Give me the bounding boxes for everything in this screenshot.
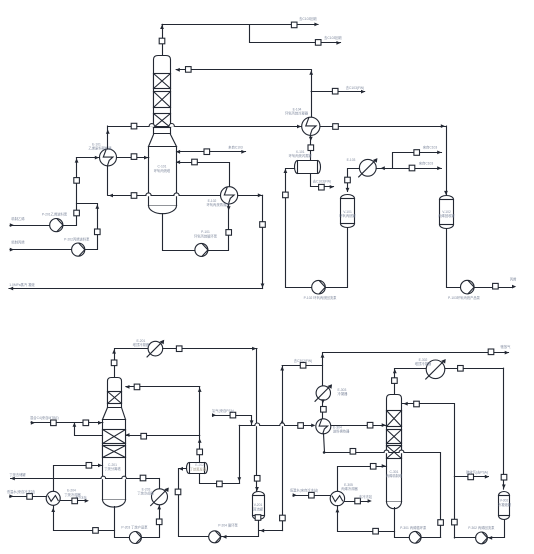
- wire purge vertical: [282, 366, 284, 531]
- wire C-201 bottoms to P-203: [115, 507, 130, 538]
- wire E-204 water return: [60, 500, 85, 502]
- wire V-102 bottoms to P-103: [447, 229, 461, 288]
- svg-text:精制丙烯: 精制丙烯: [11, 240, 25, 245]
- svg-text:低温水(来自冷冻站): 低温水(来自冷冻站): [290, 487, 319, 492]
- wire 低温水 feed to E-305: [293, 495, 330, 497]
- wire E-201 outlet to V-201: [163, 348, 257, 350]
- wire C103 upper line: [393, 153, 442, 169]
- wire P-202 discharge: [77, 204, 98, 250]
- wire P-203 discharge to E-203: [142, 505, 160, 538]
- wire E-302 outlet to V-302: [503, 368, 505, 489]
- vessel V-101: [341, 195, 355, 228]
- svg-text:丁烷蒸发器: 丁烷蒸发器: [190, 466, 207, 471]
- wire condensate header to P-301 riser: [325, 453, 441, 538]
- svg-text:弛放气(去PSA): 弛放气(去PSA): [466, 470, 488, 475]
- pump P-101: [195, 243, 208, 256]
- wire E-103 inlet from C103: [376, 168, 441, 170]
- wire P-201 discharge: [63, 158, 77, 226]
- wire condensate vertical: [262, 195, 264, 288]
- svg-text:P-301 丙烯循环泵: P-301 丙烯循环泵: [400, 525, 427, 530]
- svg-text:回流罐: 回流罐: [253, 506, 264, 511]
- svg-text:混合C4(来自MTBE): 混合C4(来自MTBE): [30, 415, 59, 420]
- line-crossing hops: [149, 124, 154, 127]
- wire long feed line to E-304: [239, 425, 312, 427]
- wire E-103 outlet to V-101: [348, 169, 360, 192]
- pump P-203: [129, 532, 141, 544]
- svg-text:P-204 循环泵: P-204 循环泵: [218, 522, 238, 527]
- pump P-201 feed 精制乙烯: [10, 225, 50, 227]
- svg-text:乙烯原料预热器: 乙烯原料预热器: [88, 145, 112, 150]
- pump P-201: [50, 219, 63, 232]
- svg-text:来自C103: 来自C103: [228, 144, 243, 149]
- svg-text:精制乙烯: 精制乙烯: [11, 216, 25, 221]
- wire vapor into C-201 mid: [126, 435, 200, 437]
- svg-text:丁烷分离塔: 丁烷分离塔: [104, 466, 121, 471]
- wire column bottoms to P-101: [163, 214, 195, 251]
- wire branch to C103 (lower): [250, 25, 341, 43]
- svg-text:进料换热器: 进料换热器: [333, 429, 350, 434]
- svg-text:去C103(FW): 去C103(FW): [313, 179, 332, 184]
- wire E-104 top vertical: [311, 70, 313, 117]
- wire E-305 water return: [345, 501, 368, 503]
- svg-text:E-102: E-102: [208, 199, 217, 203]
- pump P-302 suction from V-302: [488, 519, 505, 538]
- drum E-202: [187, 463, 208, 474]
- svg-text:来自C103: 来自C103: [423, 145, 438, 150]
- wire reflux drum vertical: [199, 387, 201, 463]
- svg-text:P-201乙烯进料泵: P-201乙烯进料泵: [42, 211, 68, 216]
- svg-text:低温水(来自冷冻站): 低温水(来自冷冻站): [7, 489, 36, 494]
- svg-text:E-103: E-103: [347, 158, 356, 162]
- svg-text:P-102 环氧丙烷回流泵: P-102 环氧丙烷回流泵: [304, 295, 337, 300]
- wire C-301 overhead to E-302: [395, 369, 504, 395]
- cooler E-103: [359, 159, 376, 176]
- svg-text:丁烷冷却器: 丁烷冷却器: [137, 490, 154, 495]
- wire E-204 bottom loop: [54, 506, 115, 531]
- wire 丁烷 product line: [11, 478, 160, 480]
- svg-text:环氧丙烷循环泵: 环氧丙烷循环泵: [194, 234, 218, 239]
- wire 氢气 feed: [213, 416, 252, 426]
- wire 驰放气 line: [323, 353, 509, 386]
- wire purge gas to PSA: [454, 476, 488, 478]
- cooler E-203: [152, 489, 168, 505]
- pump P-301: [409, 531, 421, 543]
- svg-text:去C103回收: 去C103回收: [299, 16, 317, 21]
- svg-text:去C103回收: 去C103回收: [324, 35, 342, 40]
- pump P-202 feed 精制丙烯: [10, 249, 72, 251]
- wire C-201 feed 混合C4: [31, 422, 103, 424]
- wire E-102 right to condensate header: [238, 195, 263, 197]
- pump P-302: [476, 532, 488, 544]
- wire P-103 product out: [474, 287, 511, 289]
- wire reflux riser: [454, 404, 456, 538]
- svg-text:去冷冻站: 去冷冻站: [359, 494, 373, 499]
- pump P-204: [209, 531, 221, 543]
- condenser E-302: [426, 360, 445, 379]
- svg-text:环氧丙烷罐: 环氧丙烷罐: [339, 213, 356, 218]
- heat exchanger E-102: [221, 187, 238, 204]
- vessel V-102: [440, 196, 454, 229]
- svg-text:环氧丙烷塔: 环氧丙烷塔: [154, 168, 171, 173]
- svg-text:驰放气: 驰放气: [501, 344, 512, 349]
- drum X-101: [295, 161, 321, 174]
- column C-301: [387, 395, 402, 502]
- wire C-201 overhead: [115, 349, 149, 378]
- wire 低温水 feed to E-204: [10, 496, 47, 498]
- svg-text:丁烷去储罐: 丁烷去储罐: [9, 472, 26, 477]
- wire 1.0MPa steam condensate header: [9, 288, 263, 290]
- wire E-305 return to C-301: [338, 467, 387, 492]
- wire E-104 bottom to drum X-101: [310, 136, 312, 161]
- wire drum E-202 left outlet: [179, 469, 209, 537]
- wire C-101 overhead vertical: [162, 24, 164, 56]
- wire reflux into C-201 top: [126, 386, 200, 388]
- svg-text:氢气(来自PSA): 氢气(来自PSA): [212, 408, 234, 413]
- wire P-204 to V-201 bottoms: [221, 520, 259, 537]
- wire E-101 bottom loop from E-102: [107, 166, 109, 195]
- svg-text:环氧丙烷再沸器: 环氧丙烷再沸器: [206, 202, 230, 207]
- wire E-305 bottom loop: [338, 506, 395, 532]
- svg-text:塔顶冷凝器: 塔顶冷凝器: [133, 342, 150, 347]
- wire P-302 discharge to reflux riser: [454, 537, 475, 539]
- column C-101: [154, 56, 171, 134]
- heat exchanger E-104: [302, 117, 320, 135]
- svg-text:来自C103: 来自C103: [419, 160, 434, 165]
- svg-text:环氧丙烷闪蒸罐: 环氧丙烷闪蒸罐: [289, 153, 313, 158]
- wire E-101 feed from pumps: [77, 157, 100, 159]
- wire P-102 suction from V-101: [326, 228, 348, 288]
- svg-text:丙烯: 丙烯: [510, 277, 517, 282]
- svg-text:冷凝器: 冷凝器: [338, 391, 349, 396]
- svg-text:1.0MPa蒸汽 凝液: 1.0MPa蒸汽 凝液: [9, 282, 35, 287]
- wire E-101 outlet to column: [117, 157, 149, 159]
- svg-text:丙烯冷却器: 丙烯冷却器: [341, 486, 358, 491]
- pump P-202: [72, 243, 85, 256]
- wire C-301 bottoms to P-301: [395, 508, 410, 538]
- wire V-102 inlet vertical: [446, 126, 448, 194]
- svg-text:P-203 丁烷产品泵: P-203 丁烷产品泵: [121, 525, 148, 530]
- column C-201: [108, 378, 122, 408]
- heat exchanger E-101: [100, 149, 117, 166]
- svg-text:环氧丙烷冷凝器: 环氧丙烷冷凝器: [285, 111, 309, 116]
- wire 来自C103 into column: [177, 151, 246, 153]
- wire reboiler return E-102 to column: [177, 163, 230, 187]
- cooler E-305: [330, 491, 344, 505]
- wire drum E-202 bottom line: [200, 474, 240, 484]
- wire C-101 overhead to C103 (upper): [162, 24, 318, 26]
- svg-text:丙烯回收罐: 丙烯回收罐: [438, 213, 455, 218]
- svg-text:P-302 丙烯回流泵: P-302 丙烯回流泵: [468, 525, 495, 530]
- wire E-304 outlet to C-301: [331, 425, 387, 427]
- wire E-303 to E-304: [322, 400, 324, 419]
- svg-text:冷凝液罐: 冷凝液罐: [498, 502, 512, 507]
- svg-text:去C302(FW): 去C302(FW): [294, 358, 313, 363]
- wire E-101 top vertical: [107, 126, 109, 149]
- wire purge to C103 (FW): [311, 91, 364, 93]
- wire riser to feed line: [239, 425, 241, 483]
- wire E-204 return to column: [54, 466, 103, 492]
- wire E-203 top vertical: [159, 479, 161, 490]
- wire purge top to E-303 chain: [282, 365, 322, 367]
- svg-text:P-103环氧丙烷产品泵: P-103环氧丙烷产品泵: [448, 295, 481, 300]
- wire E-304 bottom to condensate header: [324, 434, 325, 453]
- wire purge merge into V-201 bottoms: [260, 530, 283, 532]
- wire feed from E-104 area into column top section: [176, 69, 311, 71]
- svg-text:去C103(FW): 去C103(FW): [346, 85, 365, 90]
- pump P-103: [461, 280, 475, 294]
- wire E-102 bottom to P-101: [208, 205, 229, 251]
- vessel V-302: [499, 492, 510, 520]
- pump P-102: [312, 280, 326, 294]
- svg-text:丙烯精制塔: 丙烯精制塔: [386, 473, 403, 478]
- svg-text:塔顶冷凝器: 塔顶冷凝器: [415, 361, 432, 366]
- wire feed lower branch: [75, 423, 103, 436]
- wire P-301 discharge: [421, 537, 441, 539]
- cooler E-303: [316, 386, 330, 400]
- wire E-101 outlet crossing column to E-104 and V-102: [108, 126, 446, 128]
- condenser E-201: [148, 341, 163, 356]
- wire drum X-101 inlet from P-102: [286, 169, 312, 288]
- wire C-301 reflux: [403, 403, 455, 405]
- wire drum X-101 vapor to C103: [311, 174, 334, 187]
- wire V-201 inlet vertical: [256, 349, 258, 492]
- vessel V-201: [253, 492, 265, 520]
- svg-text:P-202丙烯进料泵: P-202丙烯进料泵: [64, 236, 90, 241]
- exchanger E-304: [316, 419, 331, 434]
- cooler E-204: [46, 491, 60, 505]
